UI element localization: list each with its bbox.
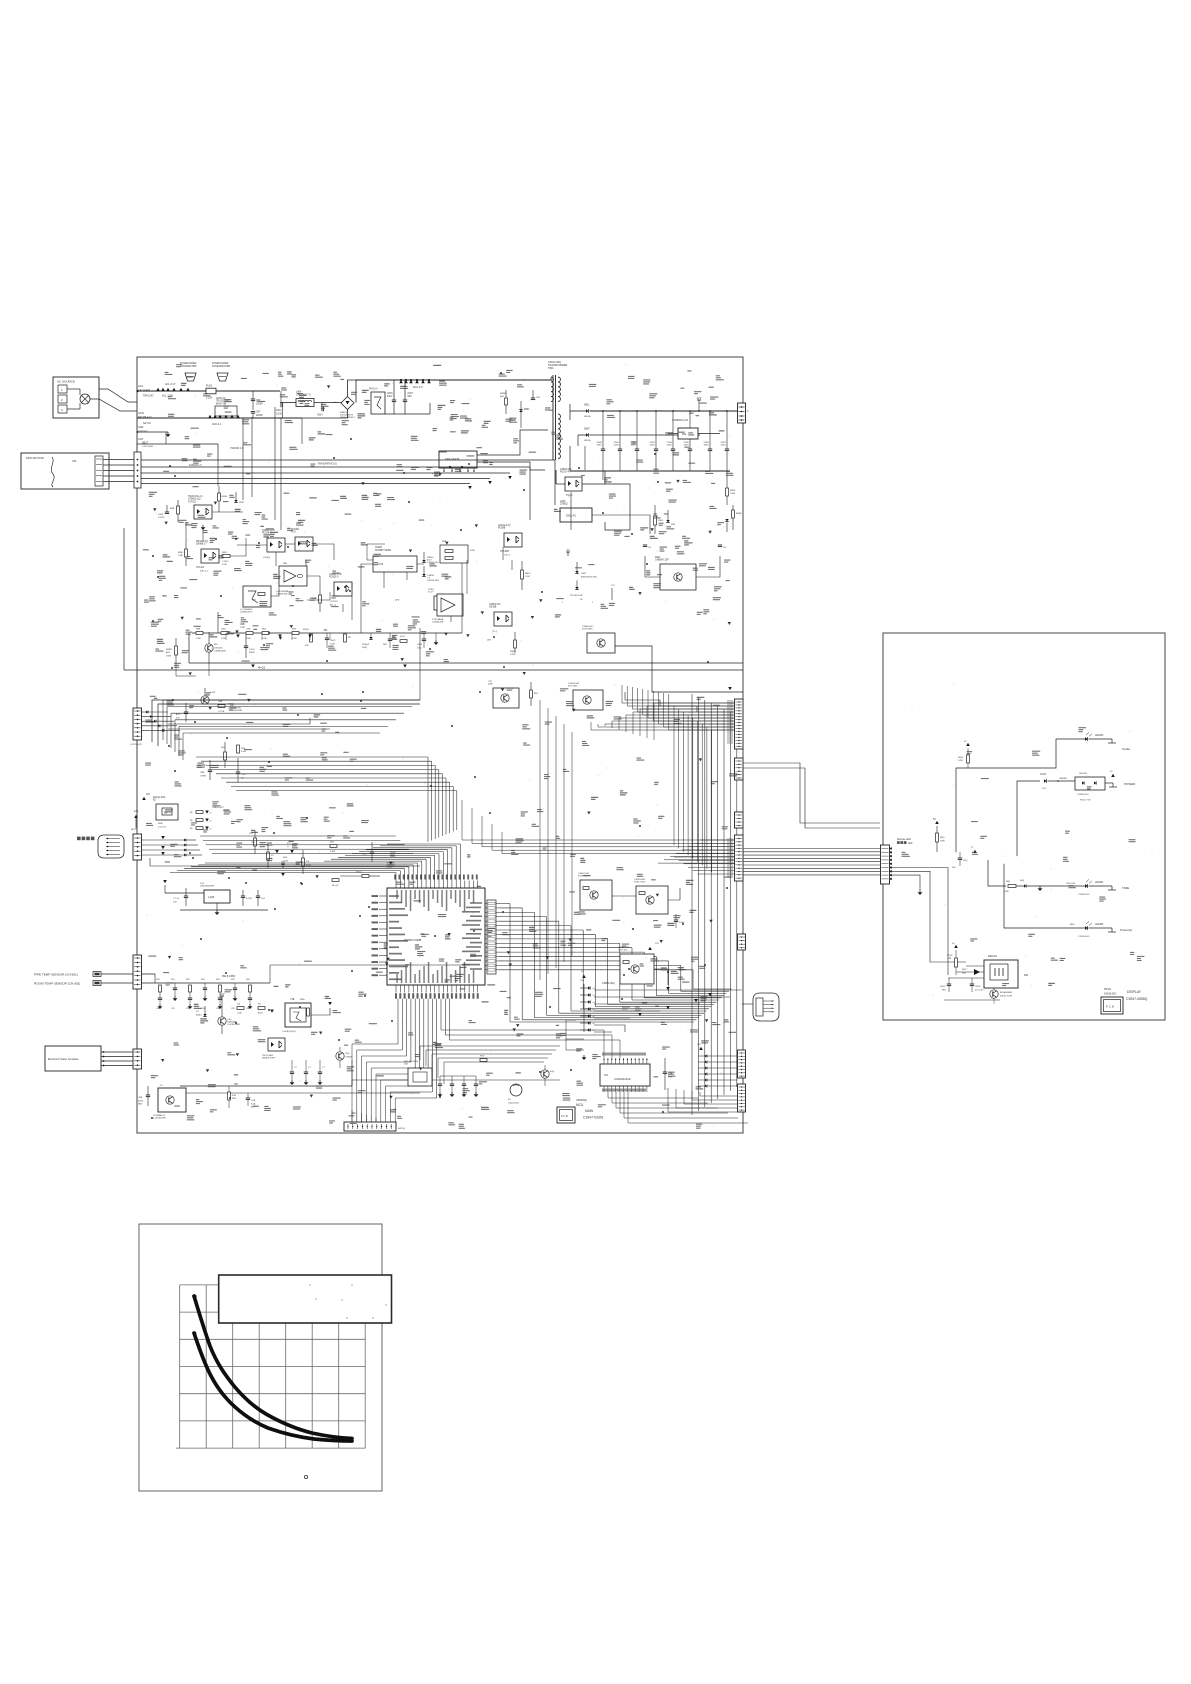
capacitor C842 filter <box>636 411 638 449</box>
main PCB border <box>137 357 743 1133</box>
capacitor C840 filter <box>602 411 604 449</box>
svg-text:B&B: B&B <box>158 823 163 825</box>
svg-text:100U: 100U <box>721 445 727 447</box>
svg-text:R15Q: R15Q <box>356 872 362 874</box>
svg-text:B4C3Q: B4C3Q <box>398 1128 405 1130</box>
svg-text:C4Q24-28Q: C4Q24-28Q <box>508 1102 519 1104</box>
svg-text:C2N26-05O: C2N26-05O <box>1078 894 1090 896</box>
svg-text:R846: R846 <box>730 490 736 492</box>
svg-text:C7 1&: C7 1& <box>173 898 180 900</box>
opto U6 TLP621 <box>194 505 212 519</box>
svg-text:RY01 N: RY01 N <box>369 388 378 391</box>
svg-text:R92.B 1/3BV: R92.B 1/3BV <box>222 976 236 978</box>
wire IC2 fanout staircase <box>608 1092 698 1098</box>
svg-text:100U: 100U <box>597 445 603 447</box>
resistor R65 ladder <box>218 493 221 501</box>
svg-text:C8B: C8B <box>200 772 205 774</box>
wire verticals CN64 upper feeds <box>461 800 463 840</box>
svg-text:Outlet: Outlet <box>1122 747 1130 751</box>
arrows on remote lines <box>694 999 698 1002</box>
capacitor C39 reg in <box>184 895 188 897</box>
junction dots extra <box>151 372 728 1119</box>
svg-text:B0N2LPB1N DB1: B0N2LPB1N DB1 <box>581 576 598 578</box>
svg-text:47U 6.3V: 47U 6.3V <box>975 989 984 991</box>
svg-text:C8B: C8B <box>138 1097 143 1099</box>
svg-text:PRG4-C7Q: PRG4-C7Q <box>196 541 208 543</box>
capacitor C61 near Q42 <box>674 919 678 921</box>
opto U7 TLP421 <box>201 549 219 563</box>
wire h11b1 feed <box>367 544 385 560</box>
svg-text:F2ZN03.1.3: F2ZN03.1.3 <box>189 464 202 467</box>
svg-text:ROOM TEMP SENSOR (CN 802): ROOM TEMP SENSOR (CN 802) <box>34 982 80 986</box>
connector CN301 display <box>881 845 890 884</box>
svg-text:(TLP4?): (TLP4?) <box>330 601 338 603</box>
svg-text:M2K: M2K <box>232 1098 237 1100</box>
resistor R35 <box>237 745 240 753</box>
relay driver K1 box <box>243 586 271 607</box>
connector CN63 4pin <box>735 812 744 828</box>
svg-text:Protect(s): Protect(s) <box>1120 928 1132 932</box>
svg-text:D81L: D81L <box>584 404 590 407</box>
dual LED302 box <box>1075 777 1105 790</box>
svg-text:SHARP?43081: SHARP?43081 <box>375 549 392 552</box>
PCB stamp box main <box>557 1107 575 1123</box>
legend specks <box>309 1284 310 1285</box>
wire long vertical x420 <box>419 628 421 700</box>
svg-text:L/2B: L/2B <box>237 1013 242 1015</box>
svg-text:C3D: C3D <box>241 774 246 776</box>
capacitor CX2 line filter <box>251 411 255 413</box>
svg-text:PC9: PC9 <box>291 532 296 534</box>
wire long rail A <box>189 662 743 664</box>
opto U8 cluster <box>267 538 285 552</box>
wire swing staircase <box>150 858 420 866</box>
mcu bottom pins <box>395 985 397 993</box>
transistor Q95 buzzer driver <box>541 1070 549 1078</box>
svg-text:in.1/12C: in.1/12C <box>158 826 167 828</box>
svg-text:S 9T09A4B: S 9T09A4B <box>432 618 444 621</box>
svg-text:12V: 12V <box>134 810 139 813</box>
zener block H11B1 <box>373 556 417 572</box>
svg-text:68U: 68U <box>408 396 413 398</box>
wire protect LED route <box>889 863 1004 865</box>
svg-text:R8Q: R8Q <box>1006 881 1011 883</box>
wire timer LED route <box>889 859 988 861</box>
nested staircase bottom centre <box>420 1045 560 1047</box>
graph axis ticks <box>176 1447 180 1449</box>
svg-text:TQL.4: TQL.4 <box>504 554 511 556</box>
wires IC2 to CN67 <box>700 1095 738 1097</box>
svg-text:REC301: REC301 <box>988 955 998 958</box>
display PCB border <box>883 633 1165 1020</box>
wire lower vertical <box>947 955 949 975</box>
svg-text:5V: 5V <box>933 819 936 821</box>
relay RY91 <box>285 1003 311 1027</box>
wire bundle mcu top staircase left <box>395 873 397 881</box>
labels CN61 <box>727 700 733 744</box>
svg-text:C8Q3: C8Q3 <box>975 986 981 988</box>
connector CN65 small <box>738 934 746 950</box>
svg-text:C-0Z8Q-05Q1: C-0Z8Q-05Q1 <box>282 1031 297 1033</box>
svg-text:C79B0b: C79B0b <box>345 1056 353 1058</box>
opto U92 <box>268 1038 285 1051</box>
svg-text:52V: 52V <box>176 717 180 719</box>
connector CN30 left pin array <box>133 708 142 740</box>
transistor Q94 <box>336 1052 344 1060</box>
svg-text:BL-Q3: BL-Q3 <box>332 885 339 887</box>
svg-text:100U: 100U <box>684 445 690 447</box>
svg-text:C40B8-4KB: C40B8-4KB <box>214 651 226 653</box>
power arrow mcu 5V <box>281 873 285 876</box>
thermistor network row <box>155 982 270 984</box>
wire display harness bundle <box>743 848 881 850</box>
capacitor C816 bulk <box>392 399 396 401</box>
snubber diode D801 <box>519 410 522 412</box>
LED305 protect red <box>1085 926 1088 930</box>
fuse holder F801 <box>185 373 196 381</box>
svg-text:400V: 400V <box>387 396 393 398</box>
graph grid <box>179 1285 181 1448</box>
resistor R843 divider <box>654 516 657 525</box>
resistor R59 <box>530 690 533 698</box>
svg-text:R3J: R3J <box>221 747 225 749</box>
wire fan bundle F4 <box>137 478 490 480</box>
wire bundle nested elbows above mcu <box>427 757 429 842</box>
svg-text:1000P: 1000P <box>256 403 263 405</box>
RC cluster mid rail <box>310 634 313 642</box>
svg-text:GND: GND <box>138 426 144 429</box>
svg-text:10V: 10V <box>173 901 177 903</box>
wire rail junctions <box>385 413 430 415</box>
transistor Q301 rec <box>990 990 998 998</box>
resistor pair box R55 <box>440 545 468 563</box>
svg-text:/77: /77 <box>487 638 491 642</box>
relay RY81 box <box>371 392 385 414</box>
svg-text:MAIN: MAIN <box>585 1109 594 1113</box>
svg-text:24: 24 <box>566 548 570 552</box>
regulator U82 5V <box>678 428 698 439</box>
capacitor C37 <box>208 769 212 771</box>
svg-text:PC817-4?: PC817-4? <box>560 472 571 474</box>
svg-text:ACL.3.2W: ACL.3.2W <box>162 395 174 398</box>
svg-text:M2Q4: M2Q4 <box>303 629 310 631</box>
wire upper-left risers <box>202 530 204 542</box>
IR receiver REC301 <box>984 960 1018 988</box>
wire mcu bottom to ULN <box>440 999 442 1030</box>
svg-text:C4583-470: C4583-470 <box>489 604 501 606</box>
smps IC U801 KPS-2601 <box>439 451 477 468</box>
opto PC81 feedback <box>565 477 582 491</box>
wire secondary taps <box>569 411 571 420</box>
svg-text:L&B?: L&B? <box>581 573 587 575</box>
svg-text:C7Q: C7Q <box>362 854 367 856</box>
mid risers to rails <box>225 633 227 640</box>
transistor driver Q42 box <box>636 886 668 914</box>
svg-text:12 B: 12 B <box>378 563 383 566</box>
power arrow 24V <box>567 552 569 556</box>
node 5V arrow right <box>973 850 977 853</box>
svg-text:5/1Q: 5/1Q <box>417 647 422 649</box>
wire bundle swing to mcu <box>200 835 396 837</box>
graph curve 2 lower <box>194 1333 352 1441</box>
svg-text:PRB?: PRB? <box>510 651 516 653</box>
svg-text:120B: 120B <box>330 643 335 645</box>
resistor R98 mid bottom <box>228 1092 231 1100</box>
graph small circle marker <box>304 1475 307 1478</box>
wire DC bus top rail <box>356 379 552 381</box>
transformer T801 <box>552 375 554 460</box>
svg-text:12V: 12V <box>146 793 151 796</box>
regulator U31 7805 <box>204 890 230 903</box>
svg-text:R801: R801 <box>222 552 228 554</box>
electronic heater box <box>45 1046 101 1071</box>
diode array right of IC2 <box>705 1055 707 1058</box>
svg-text:CN3: CN3 <box>138 438 143 441</box>
svg-text:1/8W: 1/8W <box>940 840 945 842</box>
svg-text:BBV: BBV <box>138 1104 143 1106</box>
svg-text:R6J: R6J <box>262 629 266 631</box>
buzzer B90 <box>694 1040 696 1048</box>
svg-text:(LP4Q): (LP4Q) <box>263 557 270 559</box>
svg-text:ACN: ACN <box>138 411 144 415</box>
capacitor C846 filter <box>709 411 711 449</box>
svg-text:FM-EARTH(3.5): FM-EARTH(3.5) <box>318 462 337 466</box>
svg-text:M0T2V: M0T2V <box>131 829 138 831</box>
svg-text:ACL: ACL <box>138 384 144 388</box>
svg-text:03NQ: 03NQ <box>362 647 368 649</box>
svg-text:DCL.3.9: DCL.3.9 <box>413 385 423 389</box>
filter cluster LP1 <box>254 838 257 846</box>
diode D81L output <box>570 410 586 412</box>
capacitor C60 <box>165 511 169 513</box>
resistor R57 <box>521 570 524 579</box>
wire staircase into CN61 <box>654 702 735 704</box>
svg-text:B4Q: B4Q <box>962 972 966 974</box>
svg-text:P. C. B: P. C. B <box>1106 1005 1114 1009</box>
wire AC source to board <box>67 388 80 390</box>
svg-text:1?V: 1?V <box>611 585 615 587</box>
cap cluster right rail <box>369 637 372 639</box>
mid bottom cluster stubs <box>291 1060 293 1072</box>
svg-text:C4173-406: C4173-406 <box>138 389 150 392</box>
wire Q41 Q42 links <box>612 895 636 897</box>
connector CN83 DC output <box>738 403 746 423</box>
svg-text:2200P: 2200P <box>256 415 263 417</box>
wire bottom long rail <box>180 1085 352 1087</box>
IR receiver circuit bottom mid <box>408 1068 432 1086</box>
svg-text:TQL.4: TQL.4 <box>566 495 573 497</box>
svg-text:88Q: 88Q <box>942 989 946 991</box>
svg-text:C3947-03391: C3947-03391 <box>583 1116 604 1120</box>
scan noise speckles <box>140 365 1153 1127</box>
capacitor CX1 line filter <box>251 398 255 400</box>
svg-text:bel?1O: bel?1O <box>143 422 151 425</box>
transistor Q33 top <box>201 696 209 704</box>
svg-text:C40B8-45B: C40B8-45B <box>432 622 444 624</box>
transistor Q20 <box>205 644 213 652</box>
svg-text:YELLOW: YELLOW <box>1066 883 1076 885</box>
mcu inner top labels <box>396 890 398 899</box>
diode cool on power net <box>1044 779 1046 782</box>
svg-text:D4Q: D4Q <box>345 1053 350 1055</box>
capacitor C843 filter <box>655 411 657 449</box>
svg-text:K2K3C7Q?N: K2K3C7Q?N <box>1000 995 1013 997</box>
svg-text:C2N26-05O: C2N26-05O <box>1078 936 1090 938</box>
wire aux loop <box>605 484 630 530</box>
svg-text:B-1A: B-1A <box>138 1099 143 1102</box>
svg-text:ACL.3.1Y: ACL.3.1Y <box>165 383 176 386</box>
svg-text:C2N26-05O: C2N26-05O <box>1077 794 1089 796</box>
capacitor C35 <box>184 711 188 713</box>
svg-text:Ca4Qa-47Q: Ca4Qa-47Q <box>498 525 511 527</box>
svg-text:TLP420T: TLP420T <box>500 551 510 553</box>
diode D66 <box>234 500 237 502</box>
triac driver Q30 <box>587 633 615 653</box>
wire triac out <box>615 646 743 692</box>
svg-text:Q40B9-1?: Q40B9-1? <box>196 544 207 546</box>
svg-text:V01: V01 <box>72 459 77 463</box>
capacitor C97 mid bottom <box>246 1097 250 1099</box>
wire fan bundle F5 <box>137 483 470 485</box>
svg-text:B10N: B10N <box>249 652 255 654</box>
capacitor C844 filter <box>672 411 674 449</box>
svg-text:L/1B: L/1B <box>525 576 530 578</box>
capacitor C851 <box>643 544 647 546</box>
resistor R64 left <box>175 646 178 655</box>
resistor R88 beside mcu <box>330 845 337 848</box>
capacitor C303 rec <box>970 983 974 985</box>
svg-text:R88B: R88B <box>500 393 506 395</box>
svg-text:BT1?4BC: BT1?4BC <box>568 686 578 688</box>
svg-text:AC SOURCE: AC SOURCE <box>57 380 75 384</box>
capacitor C71 near IC2 <box>663 1071 667 1073</box>
ground rec rail <box>944 999 1000 1001</box>
wire bridge to rail <box>348 380 357 397</box>
svg-text:DB3T: DB3T <box>142 443 148 445</box>
connector CN31 swing motor <box>133 834 142 860</box>
opto U14 mid <box>494 612 512 626</box>
svg-text:IC2: IC2 <box>604 1073 609 1077</box>
resistor R305 receiver <box>955 958 958 967</box>
svg-text:R6B: R6B <box>196 629 201 631</box>
capacitor C847 filter <box>726 411 728 449</box>
sensor line risers <box>269 965 271 983</box>
connector CN80 AC source terminal block <box>53 377 99 418</box>
svg-text:1380Q3: 1380Q3 <box>362 644 370 646</box>
svg-text:100U: 100U <box>650 445 656 447</box>
bottom connector CN73 <box>344 1122 396 1131</box>
svg-text:LM35B: LM35B <box>489 607 497 609</box>
mcu right pin header <box>487 900 496 974</box>
svg-text:2.4A: 2.4A <box>178 554 183 557</box>
wire PSU vertical drops <box>570 492 572 530</box>
svg-text:LED303: LED303 <box>1095 735 1104 737</box>
svg-text:100U: 100U <box>704 445 710 447</box>
capacitor C845 filter <box>689 411 691 449</box>
capacitor C302 rec <box>947 983 951 985</box>
resistor R801 snubber <box>505 398 508 405</box>
wire bundle left mid horizontals <box>163 699 420 701</box>
driver IC2 ULN2003 <box>600 1064 650 1086</box>
graph curve start blobs <box>192 1294 196 1298</box>
svg-text:ACN.1.1: ACN.1.1 <box>212 423 222 426</box>
svg-text:C816: C816 <box>387 393 393 395</box>
svg-text:C4583-470: C4583-470 <box>560 469 572 471</box>
svg-text:1/1B: 1/1B <box>947 958 952 960</box>
connector CN64 14pin display <box>735 835 744 881</box>
svg-text:1/1M: 1/1M <box>240 627 245 629</box>
svg-text:C4B04 40O: C4B04 40O <box>212 807 224 809</box>
connector CN67 8pin bottom2 <box>738 1084 746 1112</box>
diodes on CN30 lines <box>146 711 148 714</box>
svg-text:1/4W: 1/4W <box>958 760 963 762</box>
svg-text:M24C: M24C <box>196 1014 202 1016</box>
svg-text:100U: 100U <box>614 445 620 447</box>
wire ACN rail <box>137 417 302 419</box>
transistor Q91 cluster <box>218 1017 226 1025</box>
svg-text:C809: C809 <box>158 514 164 516</box>
LED304 timer yellow <box>1085 884 1088 888</box>
bridge rectifier DB81 <box>341 397 354 410</box>
wire IC to transformer <box>477 430 548 455</box>
wire to remote jack <box>742 1003 753 1005</box>
wire feedback column x462 <box>461 575 463 633</box>
LED303 outlet <box>1085 737 1088 741</box>
svg-text:A/B: A/B <box>166 651 170 654</box>
svg-text:C-40DB-4PB: C-40DB-4PB <box>153 1118 166 1120</box>
graph curve 1 upper <box>194 1296 352 1439</box>
svg-text:3: 3 <box>747 410 749 413</box>
svg-text:L4Q5: L4Q5 <box>208 895 215 899</box>
svg-text:0.33U: 0.33U <box>276 413 282 415</box>
fan motor assembly FM80 <box>21 453 109 489</box>
connector CN61 16pin <box>735 699 744 749</box>
svg-text:L/TCB: L/TCB <box>218 711 225 713</box>
capacitor C814 <box>321 407 323 411</box>
wire power LED end <box>1105 782 1113 784</box>
connector CN62 6pin <box>735 758 744 780</box>
capacitor C40 reg out <box>241 895 245 897</box>
svg-text:RED: RED <box>1070 924 1075 926</box>
svg-text:Remote LED: Remote LED <box>897 838 911 841</box>
wire temp sensors to board <box>101 973 137 975</box>
svg-text:LED302: LED302 <box>1079 773 1088 775</box>
mcu top pins <box>395 881 397 889</box>
capacitor C38 <box>236 771 240 773</box>
wire long rail B <box>124 669 743 671</box>
svg-text:1/1B: 1/1B <box>262 638 267 640</box>
svg-text:C8N16-05O: C8N16-05O <box>1104 994 1116 996</box>
svg-text:1/1B: 1/1B <box>292 638 297 640</box>
svg-text:C40B9-5P1?: C40B9-5P1? <box>240 612 253 614</box>
svg-text:RB14: RB14 <box>525 573 531 575</box>
wire thermal rail <box>137 443 218 445</box>
svg-text:P C B: P C B <box>561 1114 568 1118</box>
diode column CN31 <box>184 839 186 842</box>
svg-text:12V: 12V <box>220 992 225 996</box>
wires into REC301 <box>966 965 984 967</box>
comparator U10 <box>279 566 307 586</box>
svg-text:Y02N03.1.9: Y02N03.1.9 <box>230 447 244 450</box>
resistor R848 right chain <box>732 510 735 518</box>
svg-text:SR340: SR340 <box>584 416 591 418</box>
svg-text:28B+: 28B+ <box>300 999 306 1001</box>
mcu top pin number labels <box>394 875 396 880</box>
svg-text:R6B: R6B <box>170 508 175 510</box>
resistor R99 <box>480 1059 487 1062</box>
svg-text:F1B: F1B <box>232 1095 237 1097</box>
svg-text:C8NF89Q: C8NF89Q <box>576 1099 587 1102</box>
